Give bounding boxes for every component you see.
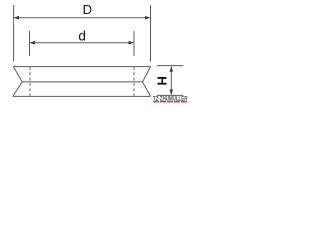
arrowhead H top [170,66,174,72]
extension line D right [150,5,152,62]
dimension line D [15,17,150,19]
extension line H top [157,65,183,67]
arrowhead D left [14,16,20,20]
dimension line d [31,42,134,44]
extension line d right [133,31,135,56]
arrowhead d right [129,41,135,45]
svg-text:H: H [154,76,169,85]
extension line H bottom [157,94,183,96]
dimension line H [170,67,172,95]
pulley groove root line [22,81,142,83]
arrowhead H bottom [170,89,174,95]
pulley body bottom line [13,95,151,97]
right groove notch [143,67,151,97]
svg-text:D: D [83,2,92,17]
arrowhead D right [145,16,151,20]
left groove notch [13,67,22,97]
watermark red row [153,101,187,103]
pulley body top line [13,66,150,68]
hidden groove diameter line left (dashed) [29,67,31,96]
extension line D left [13,5,15,62]
svg-text:d: d [78,29,86,44]
hidden groove diameter line right (dashed) [133,67,135,96]
extension line d left [29,31,31,56]
arrowhead d left [30,41,36,45]
